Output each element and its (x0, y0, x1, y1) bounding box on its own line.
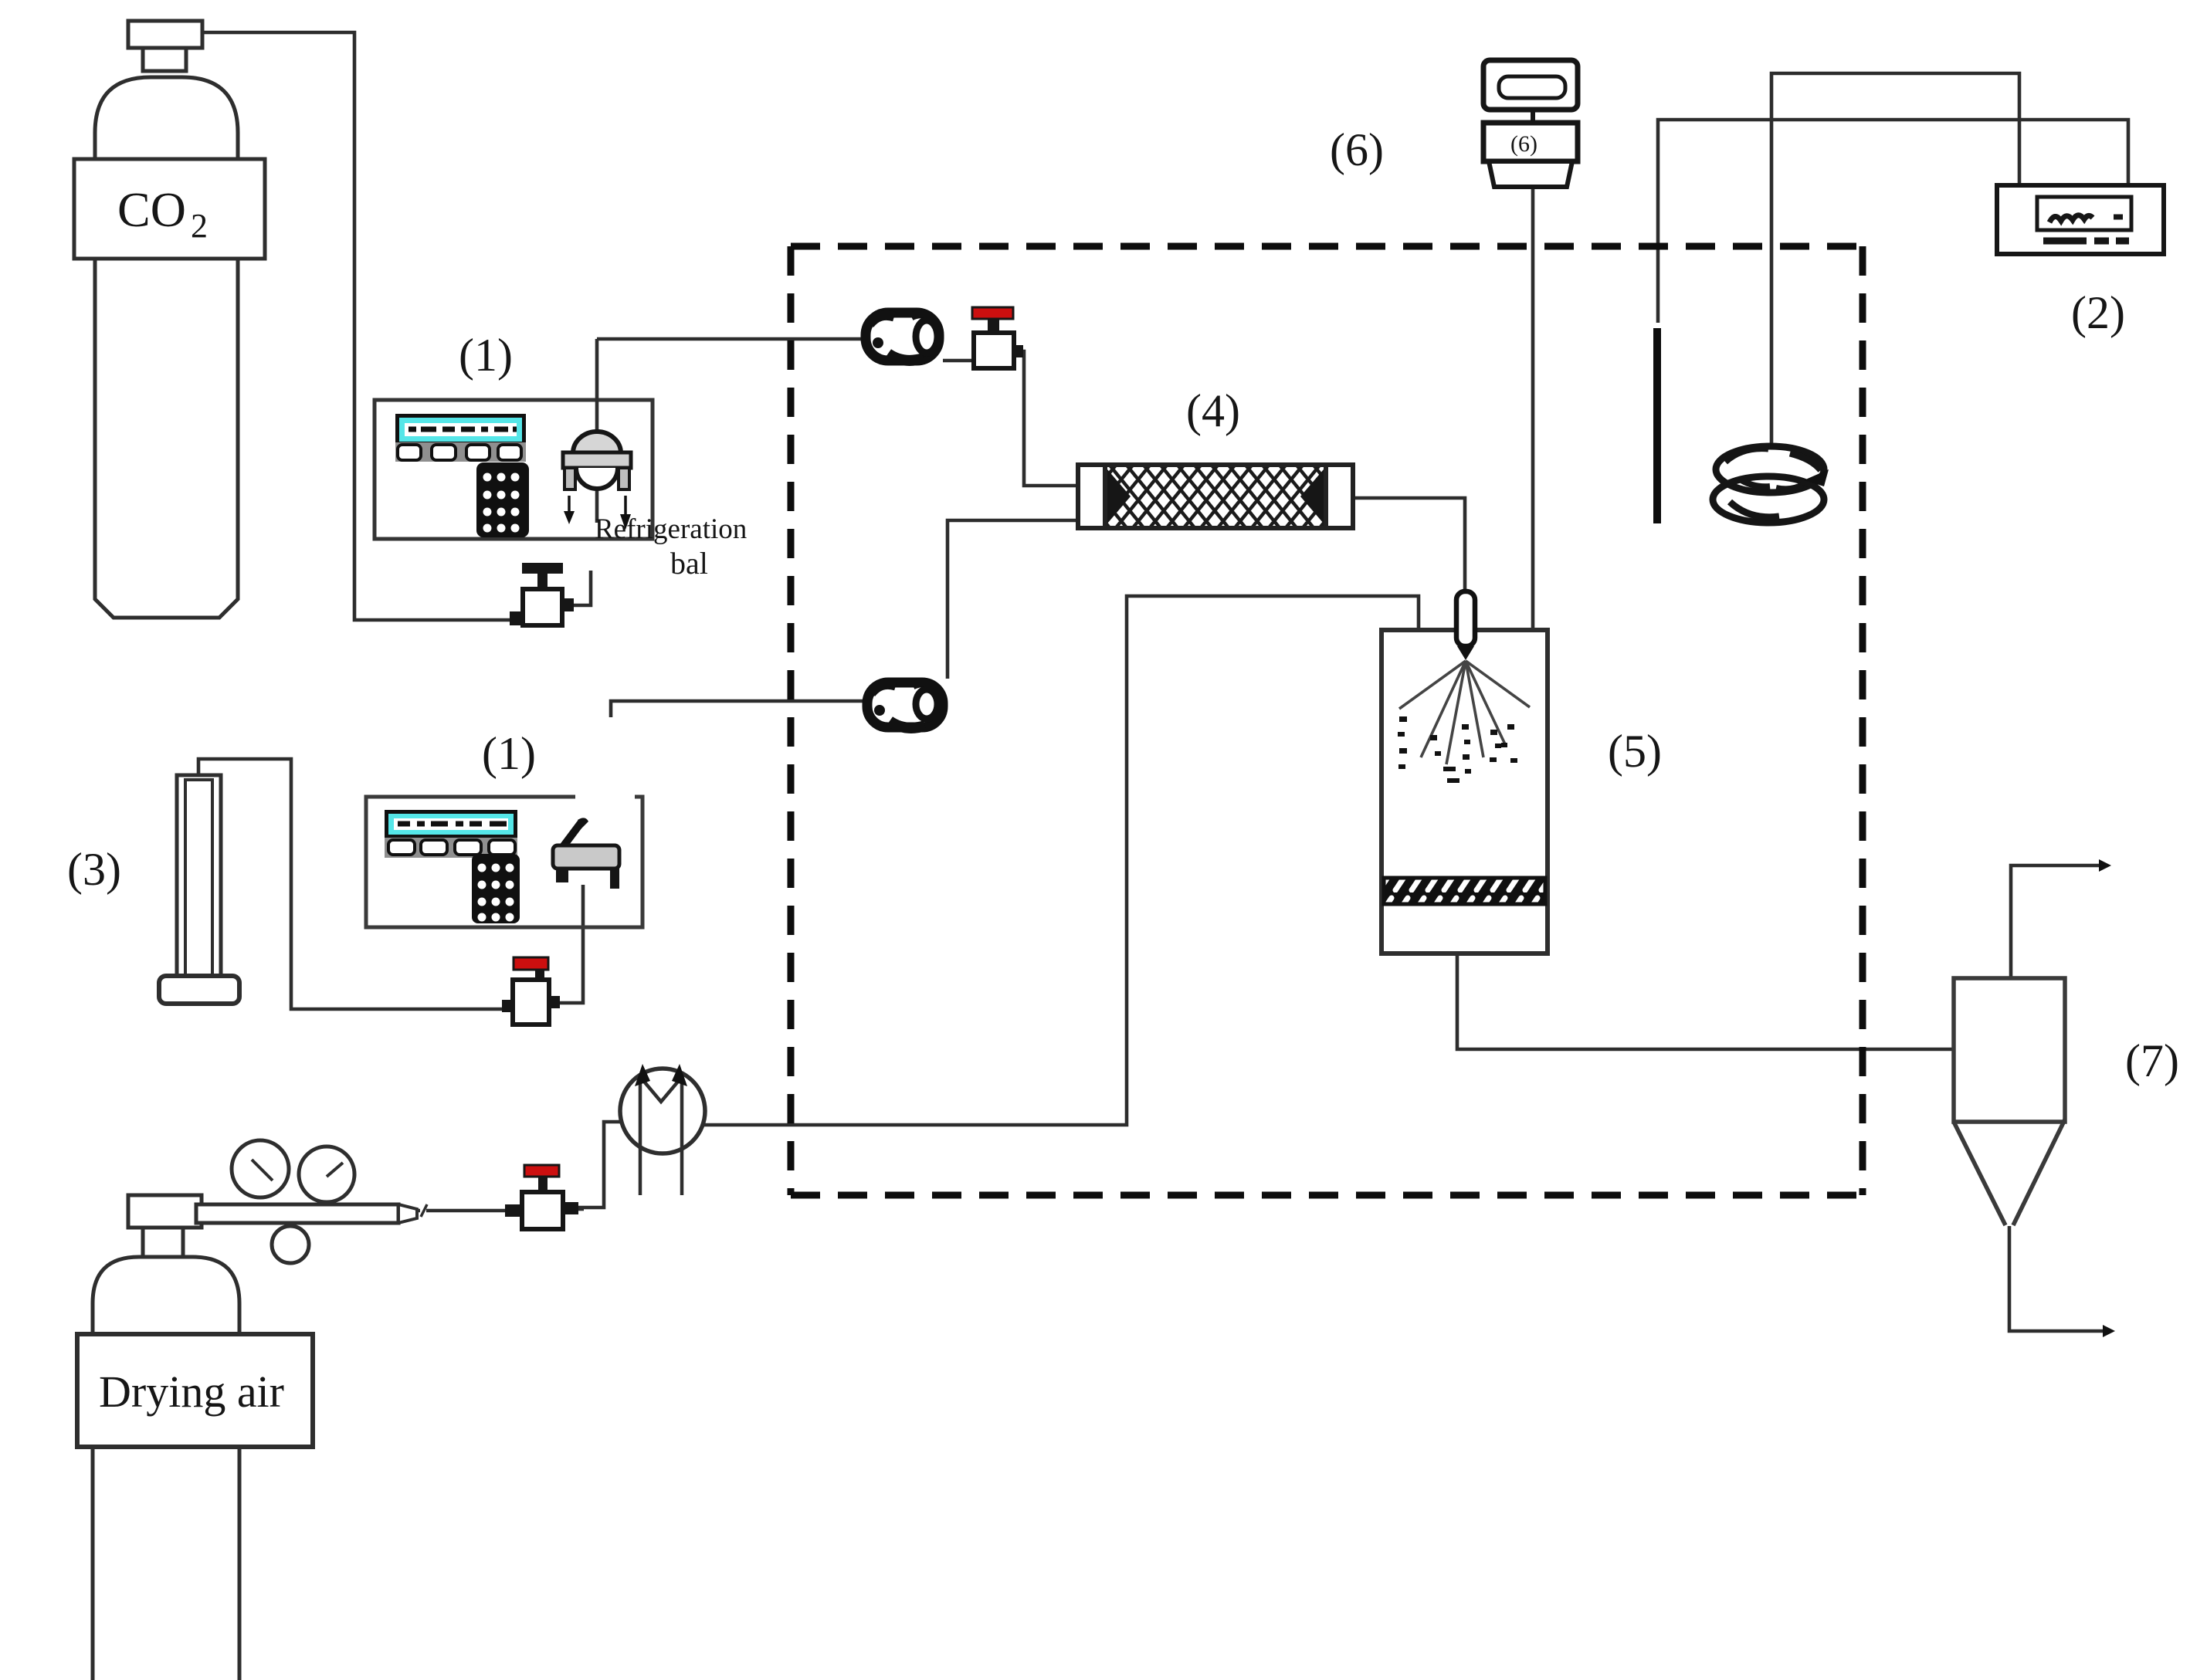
drying air label box (77, 1334, 313, 1447)
svg-text:Drying air: Drying air (99, 1367, 284, 1417)
svg-text:Refrigeration: Refrigeration (595, 513, 747, 545)
wire solution column to valve V4 (198, 759, 503, 1009)
pump1 display (395, 414, 526, 445)
wire V2 down to mixer upper inlet (1022, 351, 1080, 486)
wire V4 out to pump2 head (560, 885, 583, 1003)
gauge 2 (299, 1147, 354, 1202)
wire CO2 cap to pump1 valve (202, 32, 511, 620)
pump2 buttons (385, 838, 517, 858)
valve V3 (red, drying air) (505, 1165, 578, 1229)
svg-text:(4): (4) (1186, 385, 1240, 436)
svg-text:(1): (1) (459, 330, 513, 381)
pump2 display (385, 810, 517, 838)
CO2 label box (74, 159, 265, 259)
valve V1 (under pump1) (510, 563, 574, 625)
CO2 cylinder neck (143, 48, 186, 71)
wire V3 to heat exchanger corner (578, 1207, 584, 1211)
drying cylinder cap (128, 1195, 202, 1228)
pump2 head (553, 818, 619, 889)
wire mixer outlet to nozzle (1353, 498, 1465, 594)
pump1 head (563, 432, 631, 489)
vessel frit band (1384, 878, 1545, 904)
wire cyclone gas outlet (2011, 865, 2099, 978)
pump2 box (366, 797, 642, 927)
wire controller line A (coil) (1771, 73, 2019, 445)
wire pump1 outlet to check valve CV1 (597, 337, 862, 341)
drying cylinder neck (143, 1228, 183, 1257)
arrow cyclone gas outlet (2099, 859, 2111, 872)
nozzle (1456, 591, 1475, 646)
wire balance to vessel top (1531, 187, 1535, 630)
wire heat-exchanger left leg (578, 1122, 622, 1207)
svg-text:(1): (1) (482, 728, 536, 779)
pump1 buttons (395, 442, 526, 462)
wire CV1 to V2 (943, 359, 971, 363)
svg-text:bal: bal (670, 546, 708, 581)
dashed box top (791, 243, 1863, 250)
dashed box bottom (791, 1192, 1863, 1199)
wire pump1 outlet riser (595, 339, 599, 523)
svg-text:(7): (7) (2125, 1035, 2179, 1086)
svg-text:(5): (5) (1608, 726, 1662, 777)
thermocouple thick bar (1653, 328, 1661, 523)
wire controller line B (thermo bar) (1658, 120, 2128, 323)
line break tick at regulator outlet (420, 1204, 426, 1218)
dashed box right (1860, 246, 1866, 1195)
pump2 keypad (472, 854, 520, 923)
gauge 1 (232, 1140, 289, 1197)
pump1 box (375, 400, 653, 539)
arrow cyclone solids outlet (2103, 1325, 2115, 1337)
wire cyclone solids outlet (2009, 1226, 2103, 1331)
svg-text:2: 2 (191, 207, 208, 245)
drain circle under bar (272, 1226, 309, 1263)
svg-text:(2): (2) (2071, 287, 2125, 338)
valve V2 (red, after CV1) (972, 307, 1023, 368)
CO2 cylinder cap (128, 21, 202, 48)
wire regulator bar to V3 (402, 1209, 507, 1213)
CO2 cylinder body (95, 77, 238, 618)
spray droplets (1398, 716, 1517, 783)
pump1 drip arrows (569, 496, 625, 515)
wire drying air riser and vessel top-left feed (704, 596, 1419, 1125)
dashed box left (788, 246, 795, 1195)
wire valve V1 out up-stub (571, 571, 591, 605)
wire vessel drain to cyclone (1457, 952, 1955, 1049)
wire CV2 feed from pump2 side (611, 701, 865, 717)
pump1 keypad (476, 462, 529, 537)
svg-text:(6): (6) (1510, 131, 1537, 157)
valve V4 (red, solution) (502, 957, 560, 1025)
svg-text:(3): (3) (67, 844, 121, 895)
wire CV2 up to mixer lower inlet (948, 520, 1080, 679)
svg-text:(6): (6) (1330, 124, 1384, 175)
spray fan (1399, 661, 1530, 764)
svg-text:CO: CO (117, 182, 186, 237)
regulator bar (196, 1204, 398, 1223)
